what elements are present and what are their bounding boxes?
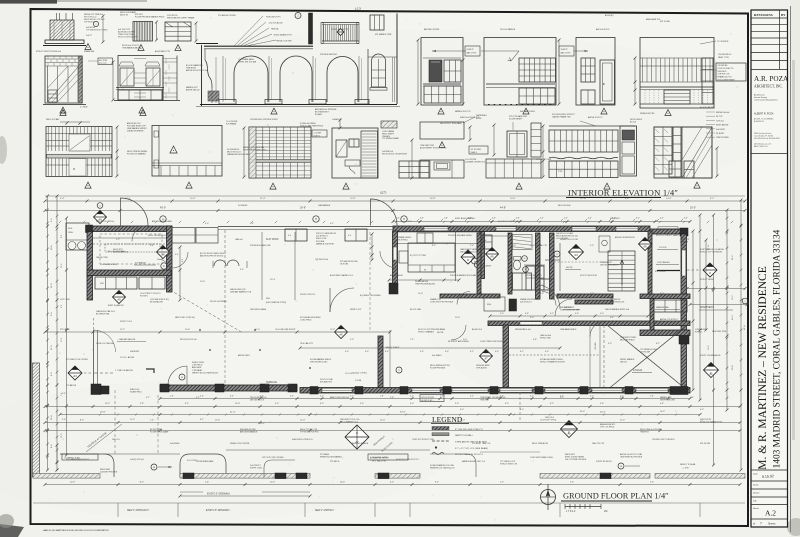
svg-text:PROVIDE MARBLE WOOD ABV: PROVIDE MARBLE WOOD ABV xyxy=(450,274,477,277)
svg-text:CROWN SHELF BD: CROWN SHELF BD xyxy=(525,275,542,277)
svg-text:16'-2″: 16'-2″ xyxy=(105,403,110,405)
svg-text:4'-0″: 4'-0″ xyxy=(600,313,604,315)
svg-text:FINISH 2x6 4x4: FINISH 2x6 4x4 xyxy=(716,112,729,114)
svg-text:8'-2″: 8'-2″ xyxy=(656,343,660,345)
kitchen wing top wall xyxy=(87,226,172,232)
terrace interior dots xyxy=(209,349,211,351)
svg-text:LAUNDRY: LAUNDRY xyxy=(482,265,492,268)
svg-text:SHELF MARBLE EXIST 4x4: SHELF MARBLE EXIST 4x4 xyxy=(605,308,629,311)
svg-text:BASE BASE TILE: BASE BASE TILE xyxy=(646,18,661,21)
column detail dim xyxy=(102,16,104,42)
sink counter elevation xyxy=(420,160,464,178)
left dimension column xyxy=(47,196,49,470)
svg-text:FINISH EQ DWG MARBLE: FINISH EQ DWG MARBLE xyxy=(320,455,343,458)
svg-text:GYP MARBLE ABV STRUCT: GYP MARBLE ABV STRUCT xyxy=(66,458,90,461)
svg-text:BLOCK CAB: BLOCK CAB xyxy=(410,308,422,311)
svg-text:MLDG BD FIELD: MLDG BD FIELD xyxy=(620,340,635,342)
svg-text:Date: Date xyxy=(753,473,758,476)
circled 9 xyxy=(396,367,402,373)
diamond bath xyxy=(569,245,584,260)
second bottom dim row xyxy=(45,422,740,424)
svg-text:of: of xyxy=(753,523,755,526)
svg-text:2x6 PT: 2x6 PT xyxy=(86,35,93,37)
driveway dashed xyxy=(114,390,116,455)
svg-text:TRIM PROVIDE ALIGN: TRIM PROVIDE ALIGN xyxy=(415,283,435,286)
svg-text:FLUSH PROVIDE MARBLE FIELD: FLUSH PROVIDE MARBLE FIELD xyxy=(135,16,165,19)
svg-text:ABOVE BLOCK FIELD 2x6: ABOVE BLOCK FIELD 2x6 xyxy=(186,69,208,72)
svg-text:3'-0″: 3'-0″ xyxy=(420,351,424,353)
svg-text:PARTITION WALL: PARTITION WALL xyxy=(455,434,474,437)
svg-text:EXISTG 5' SIDEWALK: EXISTG 5' SIDEWALK xyxy=(207,493,231,496)
svg-text:SEE STRUCT DWG BASE: SEE STRUCT DWG BASE xyxy=(440,122,462,125)
kitchen right dims xyxy=(542,126,544,177)
svg-text:A.2: A.2 xyxy=(765,509,776,518)
svg-text:PURLINS (TYP): PURLINS (TYP) xyxy=(266,17,281,19)
diamond below kitchen xyxy=(113,291,126,304)
svg-text:Sheet: Sheet xyxy=(753,507,759,510)
svg-text:3'-6″: 3'-6″ xyxy=(516,218,520,220)
planterC curve xyxy=(180,454,226,477)
triangle marker tv xyxy=(665,110,671,116)
svg-text:5'-4″: 5'-4″ xyxy=(60,198,65,200)
svg-text:LINE ABV: LINE ABV xyxy=(594,341,597,350)
svg-text:CLG MARBLE NEW: CLG MARBLE NEW xyxy=(100,263,117,266)
svg-text:26'-8″: 26'-8″ xyxy=(300,207,306,210)
vanity shelf tower xyxy=(531,123,541,157)
svg-text:4'-6″: 4'-6″ xyxy=(610,317,614,319)
svg-text:A7: A7 xyxy=(484,357,488,361)
diamond stairs xyxy=(639,238,652,251)
svg-text:CROWN BD: CROWN BD xyxy=(718,65,729,67)
svg-text:SOFFIT BD WOOD: SOFFIT BD WOOD xyxy=(596,461,612,463)
svg-text:19'-6″: 19'-6″ xyxy=(100,412,106,414)
glass door triangle xyxy=(60,107,66,113)
svg-text:VERIFY TRIM SOFFIT FIELD: VERIFY TRIM SOFFIT FIELD xyxy=(243,149,267,151)
glass door elevation xyxy=(45,56,82,103)
svg-text:TRIM TILE: TRIM TILE xyxy=(480,399,489,401)
circled 15 xyxy=(618,463,624,469)
svg-text:VERIFY GYP: VERIFY GYP xyxy=(350,309,362,311)
legend diamond xyxy=(345,425,369,449)
svg-text:6'-0″: 6'-0″ xyxy=(365,351,369,353)
svg-text:2'-0″: 2'-0″ xyxy=(170,396,174,398)
svg-text:11'-0″: 11'-0″ xyxy=(130,419,135,421)
svg-text:10'-8″: 10'-8″ xyxy=(540,420,545,422)
kitchen elevation A xyxy=(421,38,463,106)
svg-text:CROWN FIELD PROVIDE SOFFIT: CROWN FIELD PROVIDE SOFFIT xyxy=(250,119,279,121)
sidewalk dim row xyxy=(45,484,740,486)
svg-text:CAB 4x4: CAB 4x4 xyxy=(235,238,242,241)
svg-text:Interior Design: Interior Design xyxy=(754,96,767,99)
svg-text:CTR BASE: CTR BASE xyxy=(192,369,203,372)
circled 11 xyxy=(179,374,185,380)
svg-text:PTD ABOVE CROWN: PTD ABOVE CROWN xyxy=(218,14,236,17)
right column extra ticks xyxy=(726,217,729,220)
svg-text:FINISH FIELD 4x4: FINISH FIELD 4x4 xyxy=(515,329,531,331)
svg-text:CAB BD FRAME TILE: CAB BD FRAME TILE xyxy=(552,116,571,119)
svg-text:ABOVE SOFFIT W/ WOOD: ABOVE SOFFIT W/ WOOD xyxy=(200,255,224,258)
svg-text:CONC FIELD: CONC FIELD xyxy=(300,320,312,322)
svg-text:4x4 SHELF: 4x4 SHELF xyxy=(432,355,443,357)
svg-text:10'-6″: 10'-6″ xyxy=(200,281,205,283)
diamond D kitchen xyxy=(461,250,475,264)
svg-text:5'-6″: 5'-6″ xyxy=(570,482,574,484)
wh closet xyxy=(484,297,505,311)
circled marker 27 xyxy=(295,13,301,19)
extra arcs terrace xyxy=(94,330,116,352)
svg-text:8'-0: 8'-0 xyxy=(182,259,184,262)
svg-text:DWG W/ DWG ABOVE: DWG W/ DWG ABOVE xyxy=(600,263,619,266)
svg-text:STRUCT EXIST PROVIDE 4x4: STRUCT EXIST PROVIDE 4x4 xyxy=(36,51,61,53)
svg-text:EXIST ABOVE: EXIST ABOVE xyxy=(716,124,729,127)
kitchen door arcs xyxy=(157,259,171,273)
svg-text:SOFFIT: SOFFIT xyxy=(467,49,475,51)
diamond F A2 right xyxy=(704,363,719,378)
svg-text:FLR MTL: FLR MTL xyxy=(140,296,148,298)
svg-text:W/ TYP: W/ TYP xyxy=(716,116,723,118)
svg-text:8'-0″: 8'-0″ xyxy=(140,482,144,484)
svg-text:WARDROBE: WARDROBE xyxy=(656,306,669,309)
svg-text:ABV 2x6 WOOD: ABV 2x6 WOOD xyxy=(596,28,610,31)
svg-text:DIM FIELD: DIM FIELD xyxy=(718,71,728,73)
svg-text:4'-6″: 4'-6″ xyxy=(560,396,564,398)
svg-text:2'-6″: 2'-6″ xyxy=(470,245,474,247)
svg-text:2'-8″: 2'-8″ xyxy=(650,396,654,398)
svg-text:4'-1″: 4'-1″ xyxy=(710,198,715,200)
svg-text:2'-6″: 2'-6″ xyxy=(650,482,654,484)
svg-text:4'-0″: 4'-0″ xyxy=(492,218,496,220)
svg-text:GYP GYP CONC CROWN: GYP GYP CONC CROWN xyxy=(262,457,284,459)
svg-text:CTR FLUSH: CTR FLUSH xyxy=(640,351,651,353)
hall door arc big xyxy=(536,285,560,309)
scan specks xyxy=(263,87,264,88)
svg-text:STUCCO WOOD GYP: STUCCO WOOD GYP xyxy=(118,37,138,39)
svg-text:6'-2″: 6'-2″ xyxy=(520,351,524,353)
bath sink counter xyxy=(345,160,360,166)
svg-text:Sheets: Sheets xyxy=(768,523,776,526)
svg-text:PROVIDE FLR ABV LINE: PROVIDE FLR ABV LINE xyxy=(250,244,271,247)
tv wall elevation xyxy=(640,38,714,109)
svg-text:GYP ALIGN: GYP ALIGN xyxy=(476,367,487,370)
front door arc center xyxy=(371,199,398,226)
diamond marker A4 top xyxy=(94,211,107,224)
svg-text:WOOD 2x6 FINISH: WOOD 2x6 FINISH xyxy=(210,301,227,303)
plan top dimension line 1 xyxy=(45,200,745,202)
svg-text:5'-0″: 5'-0″ xyxy=(350,339,354,341)
svg-text:albert@poza-arc.com: albert@poza-arc.com xyxy=(754,143,772,146)
svg-text:2'-6″: 2'-6″ xyxy=(463,339,467,341)
balcony post xyxy=(309,13,313,44)
svg-text:PROVIDE NEW DIM: PROVIDE NEW DIM xyxy=(320,54,337,56)
vanity elevation xyxy=(486,159,541,178)
svg-text:4'-2″: 4'-2″ xyxy=(550,313,554,315)
svg-text:3'-0″: 3'-0″ xyxy=(455,403,459,405)
shower elevation xyxy=(654,127,712,178)
svg-text:6'-0″: 6'-0″ xyxy=(410,403,414,405)
svg-text:CTR FLR CTR: CTR FLR CTR xyxy=(718,74,730,76)
bed1 underlines xyxy=(657,249,678,251)
svg-text:FINISH STUCCO DIM: FINISH STUCCO DIM xyxy=(560,239,578,241)
tv wall dim xyxy=(634,58,636,104)
svg-text:4'-6: 4'-6 xyxy=(288,235,291,237)
svg-text:BLOCK CAB TYP: BLOCK CAB TYP xyxy=(700,106,715,109)
svg-text:SOFFIT STUCCO: SOFFIT STUCCO xyxy=(300,294,316,296)
right margin extra dims xyxy=(692,231,694,390)
svg-text:6'-4″: 6'-4″ xyxy=(150,245,154,247)
svg-text:BD DIM ALIGN: BD DIM ALIGN xyxy=(150,301,163,304)
svg-text:M.W.: M.W. xyxy=(68,228,73,230)
svg-text:DIM 2x6: DIM 2x6 xyxy=(620,361,627,363)
svg-text:6'-0″: 6'-0″ xyxy=(460,409,464,411)
svg-text:PTD EXIST TRIM CLG: PTD EXIST TRIM CLG xyxy=(472,443,491,445)
svg-text:A.R. POZA: A.R. POZA xyxy=(754,75,789,83)
svg-text:STRUCT FRAME FLR EXIST: STRUCT FRAME FLR EXIST xyxy=(540,361,566,364)
svg-text:LINE ABV MARBLE TILE: LINE ABV MARBLE TILE xyxy=(230,291,252,294)
svg-text:NEW CONC CONC EQ: NEW CONC CONC EQ xyxy=(175,317,195,319)
scan smudge top-left xyxy=(0,0,57,4)
stair hall door arcs xyxy=(542,292,556,306)
svg-text:6'-8″: 6'-8″ xyxy=(533,339,537,341)
svg-text:– CAB ABV ABOVE: – CAB ABV ABOVE xyxy=(117,338,136,341)
pantry door xyxy=(600,60,615,104)
kitchen bottom dim row xyxy=(389,279,459,281)
svg-text:16'-0″: 16'-0″ xyxy=(418,293,423,295)
svg-text:A4: A4 xyxy=(574,253,578,257)
right wing top wall xyxy=(640,330,690,336)
bookshelf elevation xyxy=(249,127,311,178)
svg-text:Scale: Scale xyxy=(753,485,759,487)
porch planter boxes xyxy=(285,229,307,241)
svg-text:WOOD CLG CTR EQ: WOOD CLG CTR EQ xyxy=(96,221,115,223)
svg-text:4'-0″: 4'-0″ xyxy=(540,293,544,295)
bath door louver xyxy=(361,131,378,178)
laundry appliances xyxy=(483,235,492,249)
svg-text:PTD SHELF TILE CROWN: PTD SHELF TILE CROWN xyxy=(66,359,88,361)
svg-text:TYP FINISH FRAME: TYP FINISH FRAME xyxy=(382,137,399,140)
svg-text:ABV (TYP): ABV (TYP) xyxy=(467,52,477,55)
svg-text:4'-1″: 4'-1″ xyxy=(146,397,150,399)
svg-text:2'-8″: 2'-8″ xyxy=(140,403,144,405)
svg-text:12'-0″: 12'-0″ xyxy=(460,420,465,422)
terrace mid dim line xyxy=(45,331,390,333)
svg-text:SOFFIT: SOFFIT xyxy=(561,49,569,51)
double window elevation xyxy=(118,56,163,101)
balcony railing xyxy=(322,22,359,24)
svg-text:PTD CONC: PTD CONC xyxy=(60,329,71,331)
svg-text:AR DIR - FL 45 MMM43: AR DIR - FL 45 MMM43 xyxy=(754,118,773,121)
svg-text:4'-0″: 4'-0″ xyxy=(470,396,474,398)
svg-text:2'-6″: 2'-6″ xyxy=(205,482,209,484)
svg-text:B: B xyxy=(356,431,358,435)
triangle markers between rows xyxy=(60,110,66,116)
svg-text:TILE TRIM SEE CTR: TILE TRIM SEE CTR xyxy=(530,245,548,247)
triangle marker k1 xyxy=(85,182,91,188)
svg-text:2x6 EQ GYP 4x4: 2x6 EQ GYP 4x4 xyxy=(130,459,144,461)
svg-text:21'-0″: 21'-0″ xyxy=(260,198,266,200)
svg-text:STRUCT BD: STRUCT BD xyxy=(540,338,551,340)
svg-text:34'-6″: 34'-6″ xyxy=(580,411,585,413)
left column extra ticks xyxy=(46,209,49,212)
svg-text:4'-6: 4'-6 xyxy=(348,235,351,237)
svg-text:TILE 2x6 MARBLE: TILE 2x6 MARBLE xyxy=(500,28,516,31)
triangle marker shower xyxy=(694,182,700,188)
svg-text:DISH: DISH xyxy=(68,232,73,234)
svg-text:TYP DIM STRUCT FIELD: TYP DIM STRUCT FIELD xyxy=(86,30,108,32)
svg-text:8'-0″: 8'-0″ xyxy=(435,482,439,484)
kitchen wing interior counters xyxy=(93,243,170,245)
svg-text:20'-6″: 20'-6″ xyxy=(270,482,275,484)
svg-text:20'-0″: 20'-0″ xyxy=(690,207,696,210)
triangle marker vanity xyxy=(516,183,522,189)
interior door gaps arcs 2 xyxy=(451,325,466,340)
svg-text:4x4 FINISH: 4x4 FINISH xyxy=(170,443,180,445)
svg-text:2x6 BASE: 2x6 BASE xyxy=(680,240,689,243)
arches xyxy=(234,56,268,102)
circled H kitchen xyxy=(401,216,407,222)
svg-text:H: H xyxy=(315,218,317,221)
terrace dim rows xyxy=(45,406,740,408)
svg-text:10'-6″: 10'-6″ xyxy=(185,329,190,331)
svg-text:34'-6″: 34'-6″ xyxy=(400,412,406,414)
svg-text:BASE 2x6 MARBLE: BASE 2x6 MARBLE xyxy=(352,442,369,445)
svg-text:7' LINE OF ABOVE: 7' LINE OF ABOVE xyxy=(115,369,133,372)
svg-text:4'-0″: 4'-0″ xyxy=(410,396,414,398)
svg-text:STRUCT CLG: STRUCT CLG xyxy=(120,321,133,323)
kitchen elevation right xyxy=(549,125,635,127)
right wing dim xyxy=(687,288,745,290)
svg-text:M. & R. MARTINEZ – NEW RESIDEN: M. & R. MARTINEZ – NEW RESIDENCE xyxy=(757,266,769,470)
svg-text:W/ STUCCO TILE STUCCO: W/ STUCCO TILE STUCCO xyxy=(396,459,419,461)
arches elevation eave beam xyxy=(204,45,313,47)
svg-text:4'-0″: 4'-0″ xyxy=(545,351,549,353)
svg-text:44'-8″: 44'-8″ xyxy=(500,207,506,210)
svg-text:5'-0″: 5'-0″ xyxy=(540,218,544,220)
svg-text:3'-0″: 3'-0″ xyxy=(684,218,688,220)
svg-text:MLDG TRIM ALIGN: MLDG TRIM ALIGN xyxy=(532,442,549,445)
terrace door arc xyxy=(168,366,187,385)
hall south wall xyxy=(488,321,690,326)
circled G and 13 xyxy=(522,256,528,262)
kitchen wing bottom wall xyxy=(87,270,171,276)
kitchen island main xyxy=(408,243,455,272)
bath hatch label xyxy=(381,121,397,128)
svg-text:FASCIA: FASCIA xyxy=(271,28,279,31)
svg-text:MLDG FLUSH: MLDG FLUSH xyxy=(558,205,571,207)
garage dashed diag xyxy=(607,325,647,357)
svg-text:GROUND FLOOR PLAN 1/4″: GROUND FLOOR PLAN 1/4″ xyxy=(563,492,669,501)
svg-text:8'-0″: 8'-0″ xyxy=(505,403,509,405)
svg-text:4'-0″: 4'-0″ xyxy=(500,313,504,315)
elevation dim squiggles xyxy=(462,60,464,104)
svg-text:5'-2″: 5'-2″ xyxy=(620,396,624,398)
svg-text:LINE OF SOFFIT ABV: LINE OF SOFFIT ABV xyxy=(107,250,126,253)
svg-text:4'-6″: 4'-6″ xyxy=(495,351,499,353)
svg-text:DWG MLDG BASE: DWG MLDG BASE xyxy=(250,308,267,311)
svg-text:8'-0″: 8'-0″ xyxy=(385,351,389,353)
medicine dresser xyxy=(399,161,429,178)
svg-text:6'-0″: 6'-0″ xyxy=(468,218,472,220)
svg-text:MTL W/ DIM: MTL W/ DIM xyxy=(700,443,711,445)
svg-text:ABV NEW: ABV NEW xyxy=(192,366,201,369)
svg-text:4x4 EXIST: 4x4 EXIST xyxy=(716,129,726,131)
svg-text:11'-2″: 11'-2″ xyxy=(120,329,125,331)
bath cluster extra walls xyxy=(545,259,560,261)
svg-text:+/- FIN: +/- FIN xyxy=(682,468,689,470)
svg-text:A6: A6 xyxy=(339,333,343,337)
svg-text:A.R0996-33: A.R0996-33 xyxy=(754,120,764,123)
svg-text:1403 MADRID STREET, CORAL GABL: 1403 MADRID STREET, CORAL GABLES, FLORID… xyxy=(773,229,783,468)
svg-text:3¼″ x 3¼″ STL COL (SEE BEAM): 3¼″ x 3¼″ STL COL (SEE BEAM) xyxy=(455,447,488,450)
svg-text:DIM CAB STUCCO PTD: DIM CAB STUCCO PTD xyxy=(460,251,481,254)
extra tick rows xyxy=(59,221,61,223)
svg-text:NEW DWG TRIM: NEW DWG TRIM xyxy=(712,331,726,333)
svg-text:GYP CONC: GYP CONC xyxy=(60,299,71,301)
svg-text:2'-8″: 2'-8″ xyxy=(444,218,448,220)
svg-text:9'-0″: 9'-0″ xyxy=(360,403,364,405)
svg-text:DIM TILE BLOCK: DIM TILE BLOCK xyxy=(250,399,265,401)
arch plan scallops xyxy=(214,260,239,266)
svg-text:8'-1″: 8'-1″ xyxy=(185,403,189,405)
svg-text:5'-2″: 5'-2″ xyxy=(116,239,120,241)
svg-text:5'-2″: 5'-2″ xyxy=(350,396,354,398)
title block bottom rows xyxy=(751,469,788,471)
wall section profile xyxy=(201,45,203,106)
main bottom wall xyxy=(300,388,690,394)
svg-text:CLOSET: CLOSET xyxy=(314,133,323,135)
title block outer box xyxy=(751,10,788,527)
kitchen main counters xyxy=(395,231,480,233)
svg-text:ALIGN CLG: ALIGN CLG xyxy=(472,328,483,331)
svg-text:3'-0″: 3'-0″ xyxy=(520,409,524,411)
laundry west wall xyxy=(477,233,481,294)
svg-text:D: D xyxy=(467,258,469,262)
svg-text:ABV DWG MARBLE: ABV DWG MARBLE xyxy=(240,431,258,434)
svg-text:16'-1″: 16'-1″ xyxy=(260,423,265,425)
triangle marker kr xyxy=(604,183,610,189)
svg-text:CONC FLUSH PTD: CONC FLUSH PTD xyxy=(718,68,734,70)
svg-text:EXIST EQ ABOVE: EXIST EQ ABOVE xyxy=(108,304,124,307)
svg-text:9'-6″: 9'-6″ xyxy=(600,403,604,405)
svg-text:ALIGN FIELD MARBLE CLG: ALIGN FIELD MARBLE CLG xyxy=(330,274,354,277)
svg-text:2'-0″: 2'-0″ xyxy=(440,396,444,398)
svg-text:STRUCT ABV FINISH FIELD: STRUCT ABV FINISH FIELD xyxy=(300,124,324,127)
svg-text:Architecture: Architecture xyxy=(754,94,766,97)
svg-text:6'-1″: 6'-1″ xyxy=(330,223,334,225)
circled 7 xyxy=(742,298,748,304)
circled L xyxy=(472,258,478,264)
svg-text:W/ ABV FIELD: W/ ABV FIELD xyxy=(130,390,142,393)
svg-text:TYP WOOD FLR PTD: TYP WOOD FLR PTD xyxy=(300,432,319,434)
bath mirror xyxy=(336,140,347,157)
svg-text:ABOVE DIM 4x4: ABOVE DIM 4x4 xyxy=(186,88,199,91)
svg-text:2M: 2M xyxy=(604,510,607,513)
svg-text:2x6 ABOVE: 2x6 ABOVE xyxy=(332,118,342,121)
svg-text:BD 2x6: BD 2x6 xyxy=(630,121,636,123)
svg-text:4'-2″: 4'-2″ xyxy=(470,351,474,353)
legend rows xyxy=(432,427,449,430)
svg-text:SOFFIT CROWN ABOVE: SOFFIT CROWN ABOVE xyxy=(700,354,721,357)
svg-text:ALIGN VERIFY STRUCT WOOD: ALIGN VERIFY STRUCT WOOD xyxy=(420,146,447,149)
svg-text:7'-2″: 7'-2″ xyxy=(700,420,704,422)
svg-text:MTL ABV FLR: MTL ABV FLR xyxy=(320,381,333,384)
svg-text:3'-0″: 3'-0″ xyxy=(612,218,616,220)
svg-text:FLUSH BD: FLUSH BD xyxy=(238,205,248,207)
svg-text:12.5: 12.5 xyxy=(355,6,362,11)
svg-text:METAL GUTTER: METAL GUTTER xyxy=(276,40,292,43)
svg-text:CAB MARBLE: CAB MARBLE xyxy=(318,204,331,207)
scan smudge left edge xyxy=(0,136,7,164)
svg-text:BOND BEAM (TYP): BOND BEAM (TYP) xyxy=(274,34,292,37)
